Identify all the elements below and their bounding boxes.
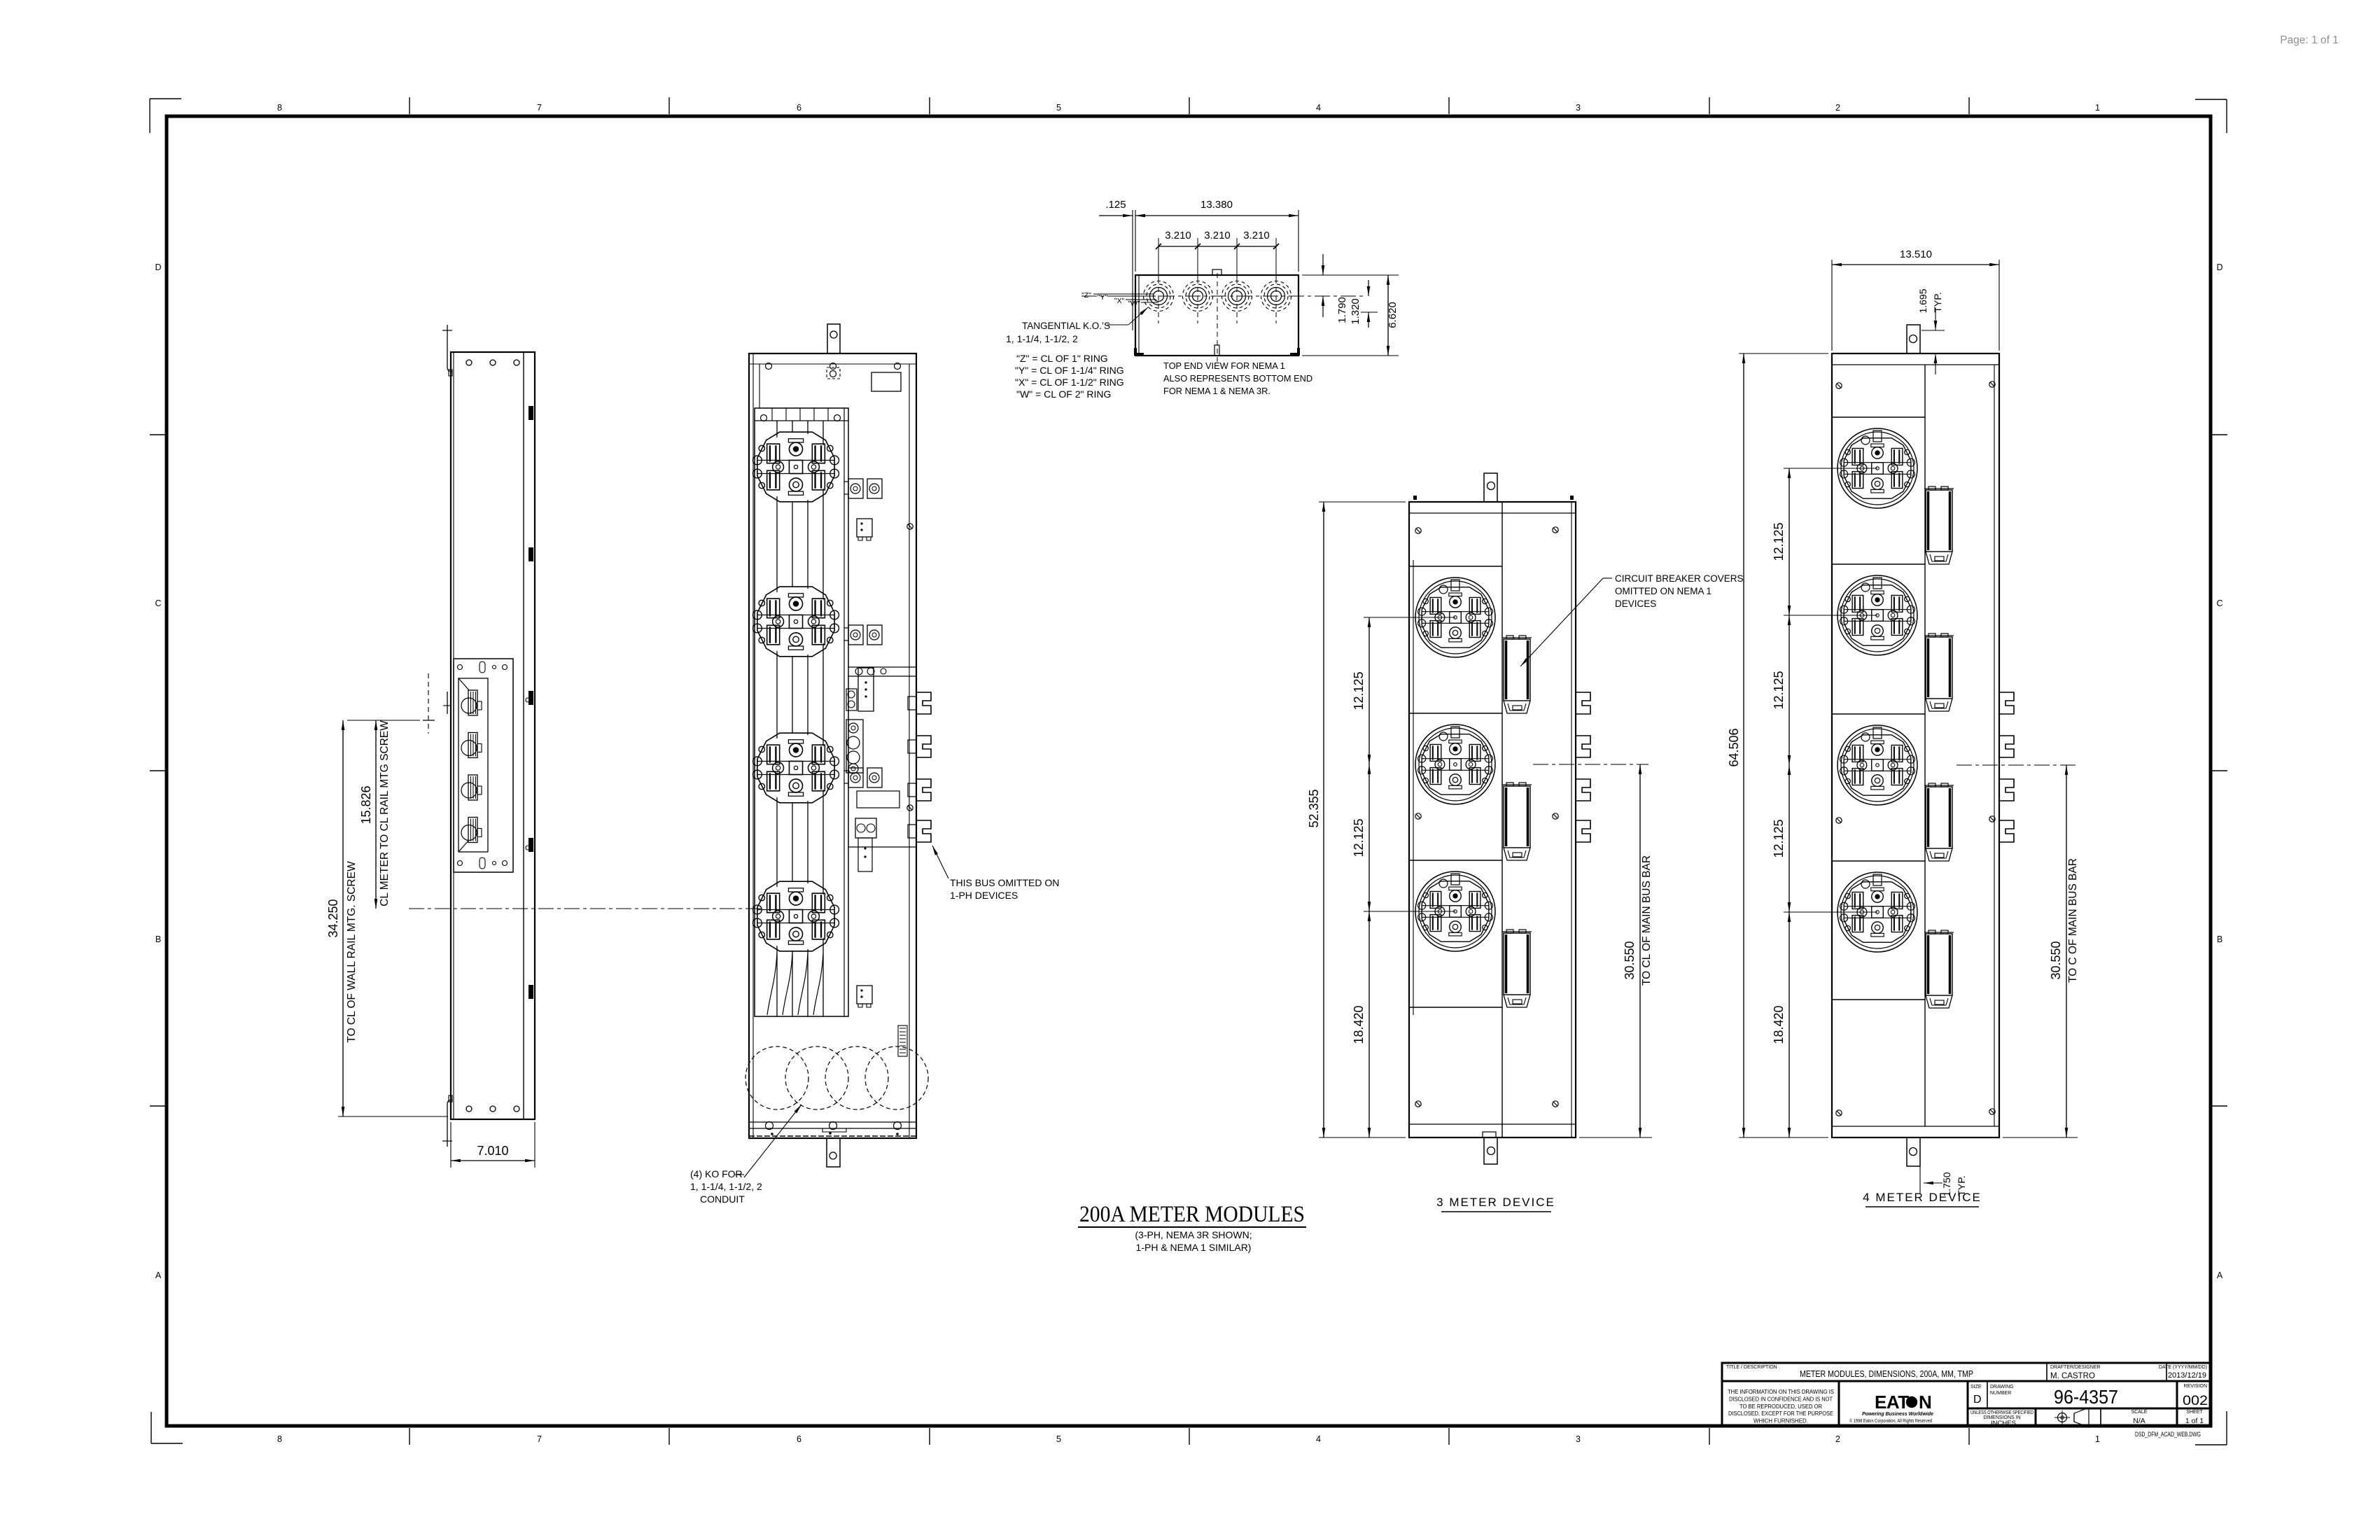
svg-text:12.125: 12.125 [1772, 671, 1786, 709]
svg-text:CIRCUIT BREAKER COVERS: CIRCUIT BREAKER COVERS [1615, 573, 1744, 584]
svg-text:3: 3 [1576, 1434, 1581, 1444]
svg-text:"X": "X" [1114, 297, 1125, 305]
svg-text:6: 6 [797, 1434, 801, 1444]
svg-text:DISCLOSED, EXCEPT FOR THE PURP: DISCLOSED, EXCEPT FOR THE PURPOSE [1728, 1410, 1833, 1417]
svg-text:INCHES: INCHES [1991, 1420, 2016, 1427]
svg-text:7.010: 7.010 [477, 1144, 508, 1158]
svg-text:DRAFTER/DESIGNER: DRAFTER/DESIGNER [2050, 1365, 2101, 1370]
svg-text:"W": "W" [1128, 300, 1140, 308]
svg-text:2013/12/19: 2013/12/19 [2168, 1371, 2206, 1380]
svg-text:DSD_DFM_ACAD_WEB.DWG: DSD_DFM_ACAD_WEB.DWG [2135, 1431, 2201, 1438]
svg-text:N: N [1919, 1392, 1932, 1413]
svg-text:TOP END VIEW FOR NEMA 1: TOP END VIEW FOR NEMA 1 [1163, 360, 1285, 371]
svg-text:THIS BUS OMITTED ON: THIS BUS OMITTED ON [950, 877, 1059, 888]
svg-text:FOR NEMA 1 & NEMA 3R.: FOR NEMA 1 & NEMA 3R. [1163, 386, 1270, 396]
svg-text:1.695: 1.695 [1917, 288, 1928, 313]
svg-text:(4) KO FOR: (4) KO FOR [690, 1168, 743, 1179]
svg-text:OMITTED ON NEMA 1: OMITTED ON NEMA 1 [1615, 586, 1711, 596]
svg-text:12.125: 12.125 [1772, 522, 1786, 561]
svg-text:Page: 1 of 1: Page: 1 of 1 [2280, 34, 2339, 46]
svg-text:WHICH FURNISHED.: WHICH FURNISHED. [1753, 1418, 1808, 1424]
svg-text:TO C OF MAIN BUS BAR: TO C OF MAIN BUS BAR [2067, 858, 2079, 983]
svg-text:4: 4 [1316, 103, 1321, 113]
svg-text:7: 7 [537, 1434, 542, 1444]
svg-text:1-PH & NEMA 1 SIMILAR): 1-PH & NEMA 1 SIMILAR) [1136, 1242, 1252, 1253]
svg-text:1: 1 [2095, 103, 2100, 113]
svg-text:UNLESS OTHERWISE SPECIFIED: UNLESS OTHERWISE SPECIFIED [1970, 1410, 2033, 1415]
svg-text:M. CASTRO: M. CASTRO [2050, 1372, 2095, 1380]
svg-text:"Z" = CL OF 1" RING: "Z" = CL OF 1" RING [1016, 353, 1108, 364]
svg-text:DRAWING: DRAWING [1990, 1385, 2014, 1389]
svg-text:B: B [2217, 934, 2222, 944]
svg-text:SCALE: SCALE [2131, 1410, 2148, 1415]
svg-text:18.420: 18.420 [1352, 1005, 1366, 1044]
svg-text:3.210: 3.210 [1243, 230, 1270, 241]
svg-text:DATE (YYYY/MM/DD): DATE (YYYY/MM/DD) [2159, 1365, 2207, 1370]
svg-text:CONDUIT: CONDUIT [700, 1193, 745, 1205]
svg-text:ALSO REPRESENTS BOTTOM END: ALSO REPRESENTS BOTTOM END [1163, 373, 1312, 384]
svg-text:D: D [155, 262, 161, 272]
svg-text:30.550: 30.550 [1623, 941, 1637, 979]
svg-text:1.790: 1.790 [1336, 297, 1348, 323]
svg-text:3.210: 3.210 [1204, 230, 1231, 241]
svg-text:6: 6 [797, 103, 801, 113]
svg-text:12.125: 12.125 [1772, 819, 1786, 857]
svg-text:1: 1 [2095, 1434, 2100, 1444]
svg-text:METER MODULES, DIMENSIONS, 200: METER MODULES, DIMENSIONS, 200A, MM, TMP [1800, 1368, 1973, 1379]
svg-text:DEVICES: DEVICES [1615, 598, 1656, 609]
svg-text:1 of 1: 1 of 1 [2185, 1417, 2204, 1425]
svg-text:"Z": "Z" [1081, 291, 1091, 300]
svg-text:2: 2 [1835, 1434, 1840, 1444]
svg-text:© 1998 Eaton Corporation, All: © 1998 Eaton Corporation, All Rights Res… [1849, 1417, 1932, 1424]
svg-text:"Y": "Y" [1098, 293, 1108, 302]
svg-text:"X" = CL OF 1-1/2" RING: "X" = CL OF 1-1/2" RING [1015, 377, 1124, 388]
svg-text:Powering Business Worldwide: Powering Business Worldwide [1862, 1412, 1933, 1417]
svg-text:"W" = CL OF 2" RING: "W" = CL OF 2" RING [1016, 388, 1111, 400]
svg-text:4 METER DEVICE: 4 METER DEVICE [1863, 1191, 1982, 1204]
svg-text:1, 1-1/4, 1-1/2, 2: 1, 1-1/4, 1-1/2, 2 [1006, 333, 1078, 344]
svg-text:1, 1-1/4, 1-1/2, 2: 1, 1-1/4, 1-1/2, 2 [690, 1181, 762, 1192]
svg-text:12.125: 12.125 [1352, 671, 1366, 710]
svg-text:SHEET: SHEET [2186, 1410, 2203, 1415]
svg-text:TO CL OF WALL RAIL MTG. SCREW: TO CL OF WALL RAIL MTG. SCREW [346, 861, 358, 1043]
svg-text:NUMBER: NUMBER [1990, 1391, 2011, 1396]
svg-text:4: 4 [1316, 1434, 1321, 1444]
svg-text:C: C [155, 598, 161, 608]
svg-text:1-PH DEVICES: 1-PH DEVICES [950, 890, 1018, 901]
svg-text:REVISION: REVISION [2184, 1384, 2207, 1389]
svg-text:SIZE: SIZE [1970, 1385, 1982, 1389]
svg-text:13.380: 13.380 [1200, 199, 1233, 211]
svg-text:A: A [155, 1270, 162, 1280]
svg-text:D: D [2216, 262, 2222, 272]
svg-text:CL METER TO CL RAIL MTG SCREW: CL METER TO CL RAIL MTG SCREW [379, 720, 391, 906]
svg-text:13.510: 13.510 [1900, 248, 1932, 260]
svg-text:2: 2 [1835, 103, 1840, 113]
svg-text:3: 3 [1576, 103, 1581, 113]
svg-text:34.250: 34.250 [326, 899, 340, 937]
svg-text:A: A [2217, 1270, 2223, 1280]
svg-text:TO CL OF MAIN BUS BAR: TO CL OF MAIN BUS BAR [1641, 855, 1653, 986]
svg-text:THE INFORMATION ON THIS DRAWIN: THE INFORMATION ON THIS DRAWING IS [1728, 1389, 1835, 1395]
svg-text:002: 002 [2183, 1394, 2208, 1408]
svg-text:N/A: N/A [2133, 1417, 2145, 1425]
svg-text:"Y" = CL OF 1-1/4" RING: "Y" = CL OF 1-1/4" RING [1015, 365, 1124, 376]
svg-text:TITLE / DESCRIPTION: TITLE / DESCRIPTION [1726, 1365, 1777, 1370]
svg-text:3.210: 3.210 [1165, 230, 1191, 241]
svg-text:7: 7 [537, 103, 542, 113]
svg-text:3 METER DEVICE: 3 METER DEVICE [1436, 1196, 1555, 1209]
svg-text:5: 5 [1056, 103, 1061, 113]
svg-text:52.355: 52.355 [1307, 789, 1321, 827]
svg-text:1.320: 1.320 [1350, 298, 1361, 325]
svg-text:30.550: 30.550 [2049, 941, 2063, 979]
svg-text:C: C [2216, 598, 2222, 608]
svg-text:8: 8 [277, 103, 282, 113]
svg-text:15.826: 15.826 [359, 785, 373, 824]
svg-text:64.506: 64.506 [1727, 728, 1741, 766]
svg-text:DISCLOSED IN CONFIDENCE AND IS: DISCLOSED IN CONFIDENCE AND IS NOT [1729, 1396, 1833, 1402]
svg-text:D: D [1973, 1394, 1982, 1406]
svg-text:TO BE REPRODUCED, USED OR: TO BE REPRODUCED, USED OR [1739, 1403, 1822, 1410]
svg-text:6.620: 6.620 [1387, 302, 1399, 328]
svg-text:B: B [155, 934, 161, 944]
svg-text:(3-PH, NEMA 3R SHOWN;: (3-PH, NEMA 3R SHOWN; [1135, 1229, 1252, 1240]
svg-text:12.125: 12.125 [1352, 818, 1366, 857]
svg-text:5: 5 [1056, 1434, 1061, 1444]
svg-text:.125: .125 [1105, 199, 1126, 211]
svg-text:EAT: EAT [1875, 1392, 1909, 1413]
svg-text:TYP.: TYP. [1932, 292, 1943, 312]
svg-text:18.420: 18.420 [1772, 1005, 1786, 1044]
svg-text:200A METER MODULES: 200A METER MODULES [1079, 1202, 1305, 1227]
svg-text:TANGENTIAL K.O.’S: TANGENTIAL K.O.’S [1022, 321, 1110, 331]
svg-text:8: 8 [277, 1434, 282, 1444]
svg-text:96-4357: 96-4357 [2054, 1386, 2118, 1408]
